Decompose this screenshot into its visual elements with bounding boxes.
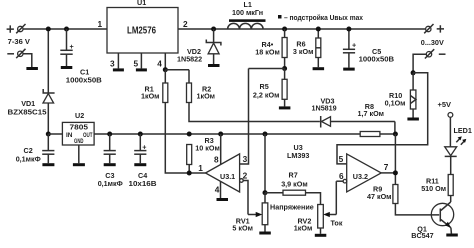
svg-text:0,1мкФ: 0,1мкФ	[98, 179, 123, 188]
resistor R7	[265, 190, 321, 204]
svg-text:Напряжение: Напряжение	[270, 203, 314, 212]
node C4	[138, 132, 143, 137]
diode VD3	[321, 116, 395, 134]
node C1 tap	[64, 27, 69, 32]
wire RV2 wiper to pin6	[335, 181, 337, 214]
svg-text:LED1: LED1	[454, 126, 472, 135]
pin 4 wire	[220, 182, 222, 199]
transistor Q1	[431, 202, 453, 234]
ground pin 3	[113, 68, 124, 71]
svg-text:18 кОм: 18 кОм	[255, 47, 279, 56]
node pin8	[218, 132, 223, 137]
ground C2	[42, 163, 54, 166]
node R6 top	[316, 27, 321, 32]
pin 5 stub	[140, 53, 142, 68]
ground input minus	[26, 67, 38, 70]
ground RV1	[259, 232, 271, 235]
zener VD1	[43, 31, 55, 134]
wire VD1 to U2	[48, 133, 62, 135]
svg-text:2,2 кОм: 2,2 кОм	[253, 90, 280, 99]
potentiometer RV2	[318, 205, 337, 234]
svg-text:1: 1	[98, 19, 103, 29]
pin 3 stub	[117, 53, 119, 68]
wire minus sense	[413, 54, 426, 73]
svg-text:2: 2	[183, 19, 188, 29]
node C5 top	[346, 27, 351, 32]
terminal input minus	[7, 49, 25, 58]
svg-text:1000х50В: 1000х50В	[359, 55, 395, 64]
node 7805 input	[46, 132, 51, 137]
pin 6 stub	[336, 179, 346, 183]
svg-text:5: 5	[339, 154, 344, 164]
svg-text:6: 6	[339, 171, 344, 181]
inductor L1	[228, 19, 266, 29]
svg-text:IN: IN	[66, 133, 73, 139]
resistor R2	[187, 70, 192, 103]
svg-text:Ток: Ток	[331, 218, 343, 227]
wire RV1 feed vertical	[264, 134, 266, 193]
resistor R1	[163, 70, 168, 103]
svg-text:+5V: +5V	[438, 100, 452, 109]
svg-text:0...30V: 0...30V	[421, 38, 444, 47]
pin 8 wire	[220, 134, 222, 164]
svg-text:10 кОм: 10 кОм	[195, 143, 220, 152]
svg-text:1кОм: 1кОм	[294, 224, 313, 233]
ground C5	[343, 68, 355, 71]
svg-text:100 мкГн: 100 мкГн	[232, 8, 263, 17]
wire sense to comparator	[337, 73, 428, 164]
wire pin7 vertical	[394, 134, 396, 185]
op-amp U1 box LM2576	[107, 0, 178, 53]
resistor R6	[316, 29, 321, 67]
svg-text:3,9 кОм: 3,9 кОм	[281, 179, 308, 188]
ground pin 4	[217, 198, 229, 201]
ground RV2	[315, 234, 327, 237]
resistor R8	[360, 132, 380, 137]
ground Q1 emitter	[446, 234, 458, 237]
node R4 top	[282, 27, 287, 32]
op-amp U3.1	[206, 154, 240, 192]
ground R5	[279, 106, 291, 109]
wire minus to ground	[23, 54, 32, 67]
svg-text:GND: GND	[74, 139, 84, 145]
wire R2 to VD3	[189, 103, 320, 122]
resistor R3	[187, 145, 192, 174]
wire input top rail	[23, 28, 107, 30]
ground R6	[313, 67, 325, 70]
svg-text:U1: U1	[137, 0, 146, 7]
terminal output minus	[425, 49, 446, 58]
pin 4 stub	[164, 53, 166, 70]
svg-text:3: 3	[110, 58, 115, 68]
wire U2 gnd stub	[78, 145, 80, 163]
svg-text:U3.2: U3.2	[353, 172, 368, 181]
wire R1 down to U3.1 out	[165, 103, 205, 174]
resistor R9	[393, 185, 439, 215]
svg-text:4: 4	[215, 184, 220, 194]
svg-text:10х16В: 10х16В	[129, 179, 157, 188]
svg-text:510 Ом: 510 Ом	[421, 184, 446, 193]
node R3 top	[187, 132, 192, 137]
svg-text:1N5819: 1N5819	[312, 103, 337, 112]
ground VD2	[208, 64, 220, 67]
resistor R5	[282, 69, 287, 107]
node VD2	[211, 27, 216, 32]
potentiometer RV1	[248, 193, 268, 232]
svg-text:2: 2	[243, 170, 248, 180]
terminal +5V	[438, 100, 453, 147]
ground C4	[134, 163, 146, 166]
svg-text:OUT: OUT	[83, 133, 93, 139]
svg-text:+: +	[70, 42, 74, 51]
svg-text:47 кОм: 47 кОм	[367, 192, 392, 201]
ground R10	[407, 118, 419, 121]
capacitor C1	[60, 29, 73, 66]
svg-text:LM393: LM393	[287, 151, 309, 160]
svg-text:7: 7	[384, 162, 389, 172]
svg-text:7805: 7805	[70, 122, 89, 131]
svg-text:BZX85C15: BZX85C15	[8, 107, 47, 116]
svg-text:1кОм: 1кОм	[197, 92, 216, 101]
svg-text:R7: R7	[289, 171, 298, 180]
regulator U2 7805	[62, 111, 94, 145]
svg-text:1000х50В: 1000х50В	[66, 76, 102, 85]
node RV1 top	[263, 190, 268, 195]
wire 5V rail	[94, 133, 395, 135]
resistor R10 shunt	[410, 73, 416, 118]
ground U2	[73, 163, 85, 166]
capacitor C5	[343, 29, 356, 68]
svg-text:+: +	[142, 142, 146, 151]
svg-text:1: 1	[198, 163, 203, 173]
svg-text:U2: U2	[75, 111, 84, 120]
node RV1 feed	[263, 132, 268, 137]
svg-text:5 кОм: 5 кОм	[232, 224, 253, 233]
node VD1 tap	[46, 27, 51, 32]
svg-text:BC547: BC547	[411, 231, 433, 240]
node C3	[107, 132, 112, 137]
op-amp U3.2	[347, 154, 382, 192]
svg-text:0,1Ом: 0,1Ом	[385, 98, 406, 107]
terminal output plus	[424, 24, 444, 33]
capacitor C4	[134, 134, 146, 163]
ground C1	[61, 66, 73, 69]
svg-text:4: 4	[157, 58, 162, 68]
svg-text:1,7 кОм: 1,7 кОм	[358, 109, 385, 118]
capacitor C2	[42, 134, 54, 163]
led LED1	[445, 136, 467, 174]
pin 2 stub	[240, 179, 248, 215]
resistor R4	[282, 29, 287, 69]
terminal input plus	[7, 24, 26, 33]
svg-text:1кОм: 1кОм	[141, 92, 160, 101]
svg-text:3 кОм: 3 кОм	[293, 47, 314, 56]
wire FB to R2	[165, 69, 189, 71]
node shunt top	[411, 70, 416, 75]
svg-text:7-36 V: 7-36 V	[8, 37, 30, 46]
wire pin 7 out	[381, 172, 395, 174]
svg-text:+: +	[352, 41, 356, 50]
wire divider to pin3 (from R4/R5 node)	[249, 68, 285, 70]
capacitor C3	[104, 134, 116, 163]
node pin4 FB	[163, 67, 168, 72]
node pin7	[393, 170, 398, 175]
node R3 bottom	[187, 171, 192, 176]
node pin7 net top	[393, 132, 398, 137]
diode VD2 schottky	[206, 29, 221, 64]
svg-text:0,1мкФ: 0,1мкФ	[16, 155, 41, 164]
svg-text:8: 8	[214, 154, 219, 164]
ground pin 5	[136, 68, 147, 71]
svg-text:5: 5	[134, 58, 139, 68]
svg-text:3: 3	[243, 154, 248, 164]
svg-text:1N5822: 1N5822	[177, 54, 202, 63]
svg-text:U3.1: U3.1	[220, 172, 235, 181]
pin 3 stub	[240, 69, 249, 165]
svg-text:– подстройка Uвых max: – подстройка Uвых max	[284, 13, 363, 22]
ground C3	[104, 163, 116, 166]
svg-text:LM2576: LM2576	[127, 26, 156, 37]
svg-text:C2: C2	[24, 146, 33, 155]
resistor R11	[448, 175, 453, 203]
note podstroika	[278, 13, 363, 22]
wire pin2 out rail	[178, 28, 426, 30]
node R4 R5 junction	[282, 66, 287, 71]
